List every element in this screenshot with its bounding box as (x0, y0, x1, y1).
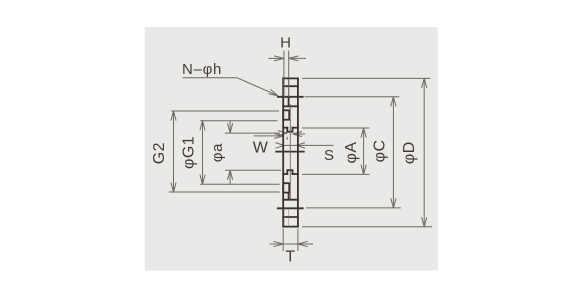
phi-D extension line top (302, 77, 430, 79)
phi-a arrow bottom (outside, pointing up) (228, 170, 233, 180)
phi-C dimension line (392, 97, 394, 208)
phi-D dimension line (423, 78, 425, 226)
T arrow left (outside, pointing right) (273, 241, 283, 246)
keyway groove lower (287, 170, 292, 174)
tooth profile thin line right top (288, 78, 290, 96)
svg-text:φD: φD (401, 141, 418, 164)
H dimension line right shaft (289, 57, 306, 59)
G2 arrow bottom (171, 182, 176, 192)
phi-D arrow bottom (422, 217, 427, 227)
phi-G1 arrow top (200, 121, 205, 131)
part top edge (283, 77, 298, 79)
T extension line right (297, 229, 299, 251)
S dimension right shaft (296, 144, 333, 146)
phi-A arrow top (361, 128, 366, 138)
tooth profile thin line left bottom (283, 208, 285, 226)
svg-text:S: S (324, 147, 334, 164)
svg-text:G2: G2 (151, 142, 168, 164)
bolt hole rectangle lower (283, 183, 289, 192)
phi-a dimension line lower tail (229, 170, 231, 185)
G2 extension line top (171, 110, 279, 112)
S dimension inner shaft (284, 144, 296, 146)
bolt hole rectangle upper (283, 110, 289, 119)
svg-text:H: H (280, 35, 291, 52)
phi-a dimension line upper tail (229, 121, 231, 133)
diagram panel background (145, 27, 438, 271)
T dimension line (270, 243, 314, 245)
G2 arrow top (171, 111, 176, 121)
flange face line middle (wide) (276, 151, 304, 153)
W arrow right (pointing left at groove wall) (293, 132, 302, 137)
phi-a arrow top (outside, pointing down) (228, 123, 233, 133)
svg-text:φG1: φG1 (181, 136, 198, 169)
hub step horizontal upper (283, 105, 298, 107)
part outline right edge (297, 78, 299, 226)
hub step vertical upper (288, 97, 290, 107)
H arrow left (274, 56, 284, 61)
hub step vertical lower (288, 194, 290, 200)
bore hidden-line dash (286, 137, 288, 140)
part bottom edge (283, 226, 298, 228)
phi-G1 dimension line (202, 121, 204, 184)
flange face line upper (wide) (278, 96, 303, 98)
part outline left edge (282, 78, 284, 226)
svg-text:N–φh: N–φh (182, 61, 222, 78)
svg-text:φC: φC (371, 139, 388, 162)
svg-text:W: W (253, 139, 269, 156)
leader arrowhead N-phi-h (269, 89, 278, 95)
svg-text:T: T (285, 249, 295, 266)
bore line upper left segment (283, 127, 287, 129)
keyway groove upper (287, 128, 292, 132)
W dimension left shaft (also phi-a top extension) (225, 132, 280, 134)
part axis centerline (289, 104, 291, 199)
phi-A dimension line (363, 128, 365, 174)
W dimension right shaft (293, 133, 306, 135)
leader underline N-phi-h (183, 77, 237, 79)
H extension line left (283, 51, 285, 97)
flange face line lower (wide) (278, 207, 303, 209)
svg-text:φA: φA (343, 141, 360, 163)
tooth profile thin line left top (283, 78, 285, 96)
phi-D arrow top (422, 78, 427, 88)
H arrow right (289, 56, 299, 61)
phi-A arrow bottom (361, 165, 366, 175)
phi-A extension line bottom (302, 173, 370, 175)
W dimension second left shaft (254, 135, 281, 137)
phi-C extension line bottom (306, 207, 401, 209)
rim divider bottom (283, 216, 298, 218)
phi-G1 extension line top (200, 120, 277, 122)
phi-G1 extension line bottom (200, 183, 280, 185)
G2 dimension line (173, 111, 175, 192)
svg-text:φa: φa (209, 143, 226, 162)
bore line lower right segment (293, 173, 298, 175)
G2 extension line bottom (169, 191, 280, 193)
phi-D extension line bottom (302, 226, 432, 228)
tooth profile thin line right bottom (288, 208, 290, 226)
leader diagonal N-phi-h (237, 78, 278, 96)
phi-a extension line bottom (225, 169, 281, 171)
bore line upper right segment (293, 127, 298, 129)
H extension line right (288, 51, 290, 97)
W arrow left (pointing right at groove wall) (278, 131, 287, 136)
phi-C arrow bottom (391, 198, 396, 208)
hub step horizontal lower (283, 199, 298, 201)
bore line lower left segment (283, 173, 287, 175)
T arrow right (outside, pointing left) (298, 241, 308, 246)
phi-A extension line top (302, 127, 370, 129)
S arrow left (275, 143, 284, 149)
phi-C extension line top (305, 96, 400, 98)
W second arrow (pointing right at left face) (274, 133, 283, 138)
phi-G1 arrow bottom (200, 175, 205, 185)
T extension line left (282, 229, 284, 251)
S arrow right (296, 143, 305, 149)
phi-C arrow top (391, 97, 396, 107)
rim divider top (283, 85, 298, 87)
H dimension line left shaft (269, 57, 284, 59)
